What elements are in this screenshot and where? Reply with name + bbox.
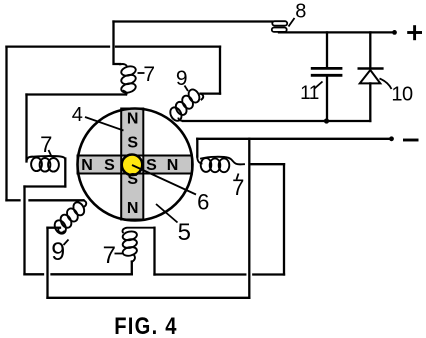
svg-text:N: N	[127, 200, 139, 217]
wire riser down to left coil	[25, 95, 27, 162]
rotor circle outline	[78, 109, 193, 221]
coil L2 (7, left)	[27, 156, 66, 172]
magnet pole letters vertical bar	[127, 111, 139, 218]
rotor bar outlines	[78, 109, 193, 220]
coil L4 (7, bottom)	[122, 228, 155, 262]
svg-text:11: 11	[300, 83, 319, 104]
rotor 5: vertical magnet bar	[121, 109, 143, 220]
svg-text:7: 7	[103, 242, 116, 269]
wire from bottom coil top right down	[153, 228, 155, 275]
wire top-left horizontal to switch	[114, 20, 273, 22]
diode D (10)	[369, 32, 371, 68]
label 8 with tick	[289, 18, 295, 27]
wire horizontal left at y186	[25, 185, 66, 187]
label 7 bottom with dash	[115, 253, 123, 255]
svg-text:FIG. 4: FIG. 4	[114, 312, 178, 338]
label 7 top with dash	[138, 72, 145, 74]
svg-text:S: S	[127, 171, 138, 188]
wire into top-right coil 9	[201, 92, 221, 94]
svg-text:S: S	[104, 157, 115, 174]
svg-text:10: 10	[391, 84, 413, 106]
wire bottom-most bus	[48, 297, 250, 299]
wire vertical x220 down	[219, 47, 221, 94]
label 11 with tick	[315, 82, 323, 89]
coil L1 (7, top)	[120, 64, 137, 94]
shaft 6: yellow center circle	[122, 155, 143, 176]
svg-text:6: 6	[197, 190, 209, 215]
wire left main vertical	[5, 47, 7, 201]
wire minus bus	[197, 138, 391, 140]
wire stub from coil 9 to corner	[48, 227, 61, 229]
junction dot at plus	[392, 30, 397, 35]
svg-text:N: N	[127, 111, 139, 128]
switch 8 contact bars	[272, 21, 287, 32]
wire bottom bus left segment (hop at x47.5)	[25, 273, 44, 275]
svg-text:S: S	[146, 157, 157, 174]
wire vertical down to top coil	[114, 22, 121, 65]
svg-text:9: 9	[51, 238, 64, 266]
wire y121 from coil 9 to diode	[183, 120, 370, 122]
leader line 4	[85, 117, 124, 131]
minus terminal symbol	[403, 139, 419, 142]
wire vertical x24.5 down to bottom bus	[23, 187, 25, 275]
svg-text:8: 8	[295, 1, 306, 23]
svg-text:4: 4	[72, 104, 83, 126]
wire horizontal y200 left part	[7, 199, 20, 201]
wire from top coil bottom going left	[27, 93, 127, 95]
label 9 bottom with tick	[64, 240, 69, 246]
wire right coil left end up to minus bus	[196, 139, 198, 157]
label 10 with tick	[380, 79, 392, 90]
wire horizontal y164 to right coil (hop at x249.3)	[252, 163, 285, 165]
svg-text:S: S	[127, 135, 138, 152]
wire horizontal y200 right part to coil 9	[30, 199, 84, 201]
label 7 left with tick	[49, 150, 52, 157]
wire top horizontal y46 (hop at x113.5)	[7, 45, 110, 47]
capacitor C (11) plates	[312, 68, 341, 75]
wire bottom bus right segment (hop at x249.3)	[155, 273, 246, 275]
svg-text:N: N	[167, 157, 179, 174]
coil L6 (9, upper-right diagonal)	[168, 88, 203, 123]
wire bottom coil lower end down	[131, 262, 133, 275]
svg-text:7: 7	[143, 63, 154, 86]
label 9 top with tick	[185, 86, 189, 92]
wire vertical x47.5 down	[46, 228, 48, 298]
wire vertical x284 up	[283, 164, 285, 274]
wire from left coil right end down	[64, 159, 66, 187]
leader line 5	[156, 204, 178, 223]
svg-text:7: 7	[232, 175, 244, 200]
coil L5 (7, right)	[197, 156, 244, 173]
svg-text:9: 9	[176, 67, 187, 90]
plus terminal symbol	[407, 25, 422, 40]
junction dot capacitor bottom	[324, 118, 329, 123]
svg-text:N: N	[81, 157, 93, 174]
rotor 5: horizontal magnet bar	[78, 156, 193, 174]
wire vertical x249.3 up to minus bus	[248, 139, 250, 298]
capacitor C (11) leads	[326, 32, 328, 66]
junction dot at minus	[389, 136, 394, 141]
svg-text:5: 5	[178, 219, 191, 246]
rotor: white crossing square	[122, 157, 142, 173]
magnet pole letters horizontal bar	[81, 157, 178, 174]
label 7 right with tick	[237, 174, 239, 180]
wire from switch to plus	[279, 31, 395, 33]
leader line 6 from shaft	[132, 165, 196, 195]
svg-text:7: 7	[40, 132, 52, 157]
coil L3 (9, lower-left diagonal)	[52, 200, 86, 235]
